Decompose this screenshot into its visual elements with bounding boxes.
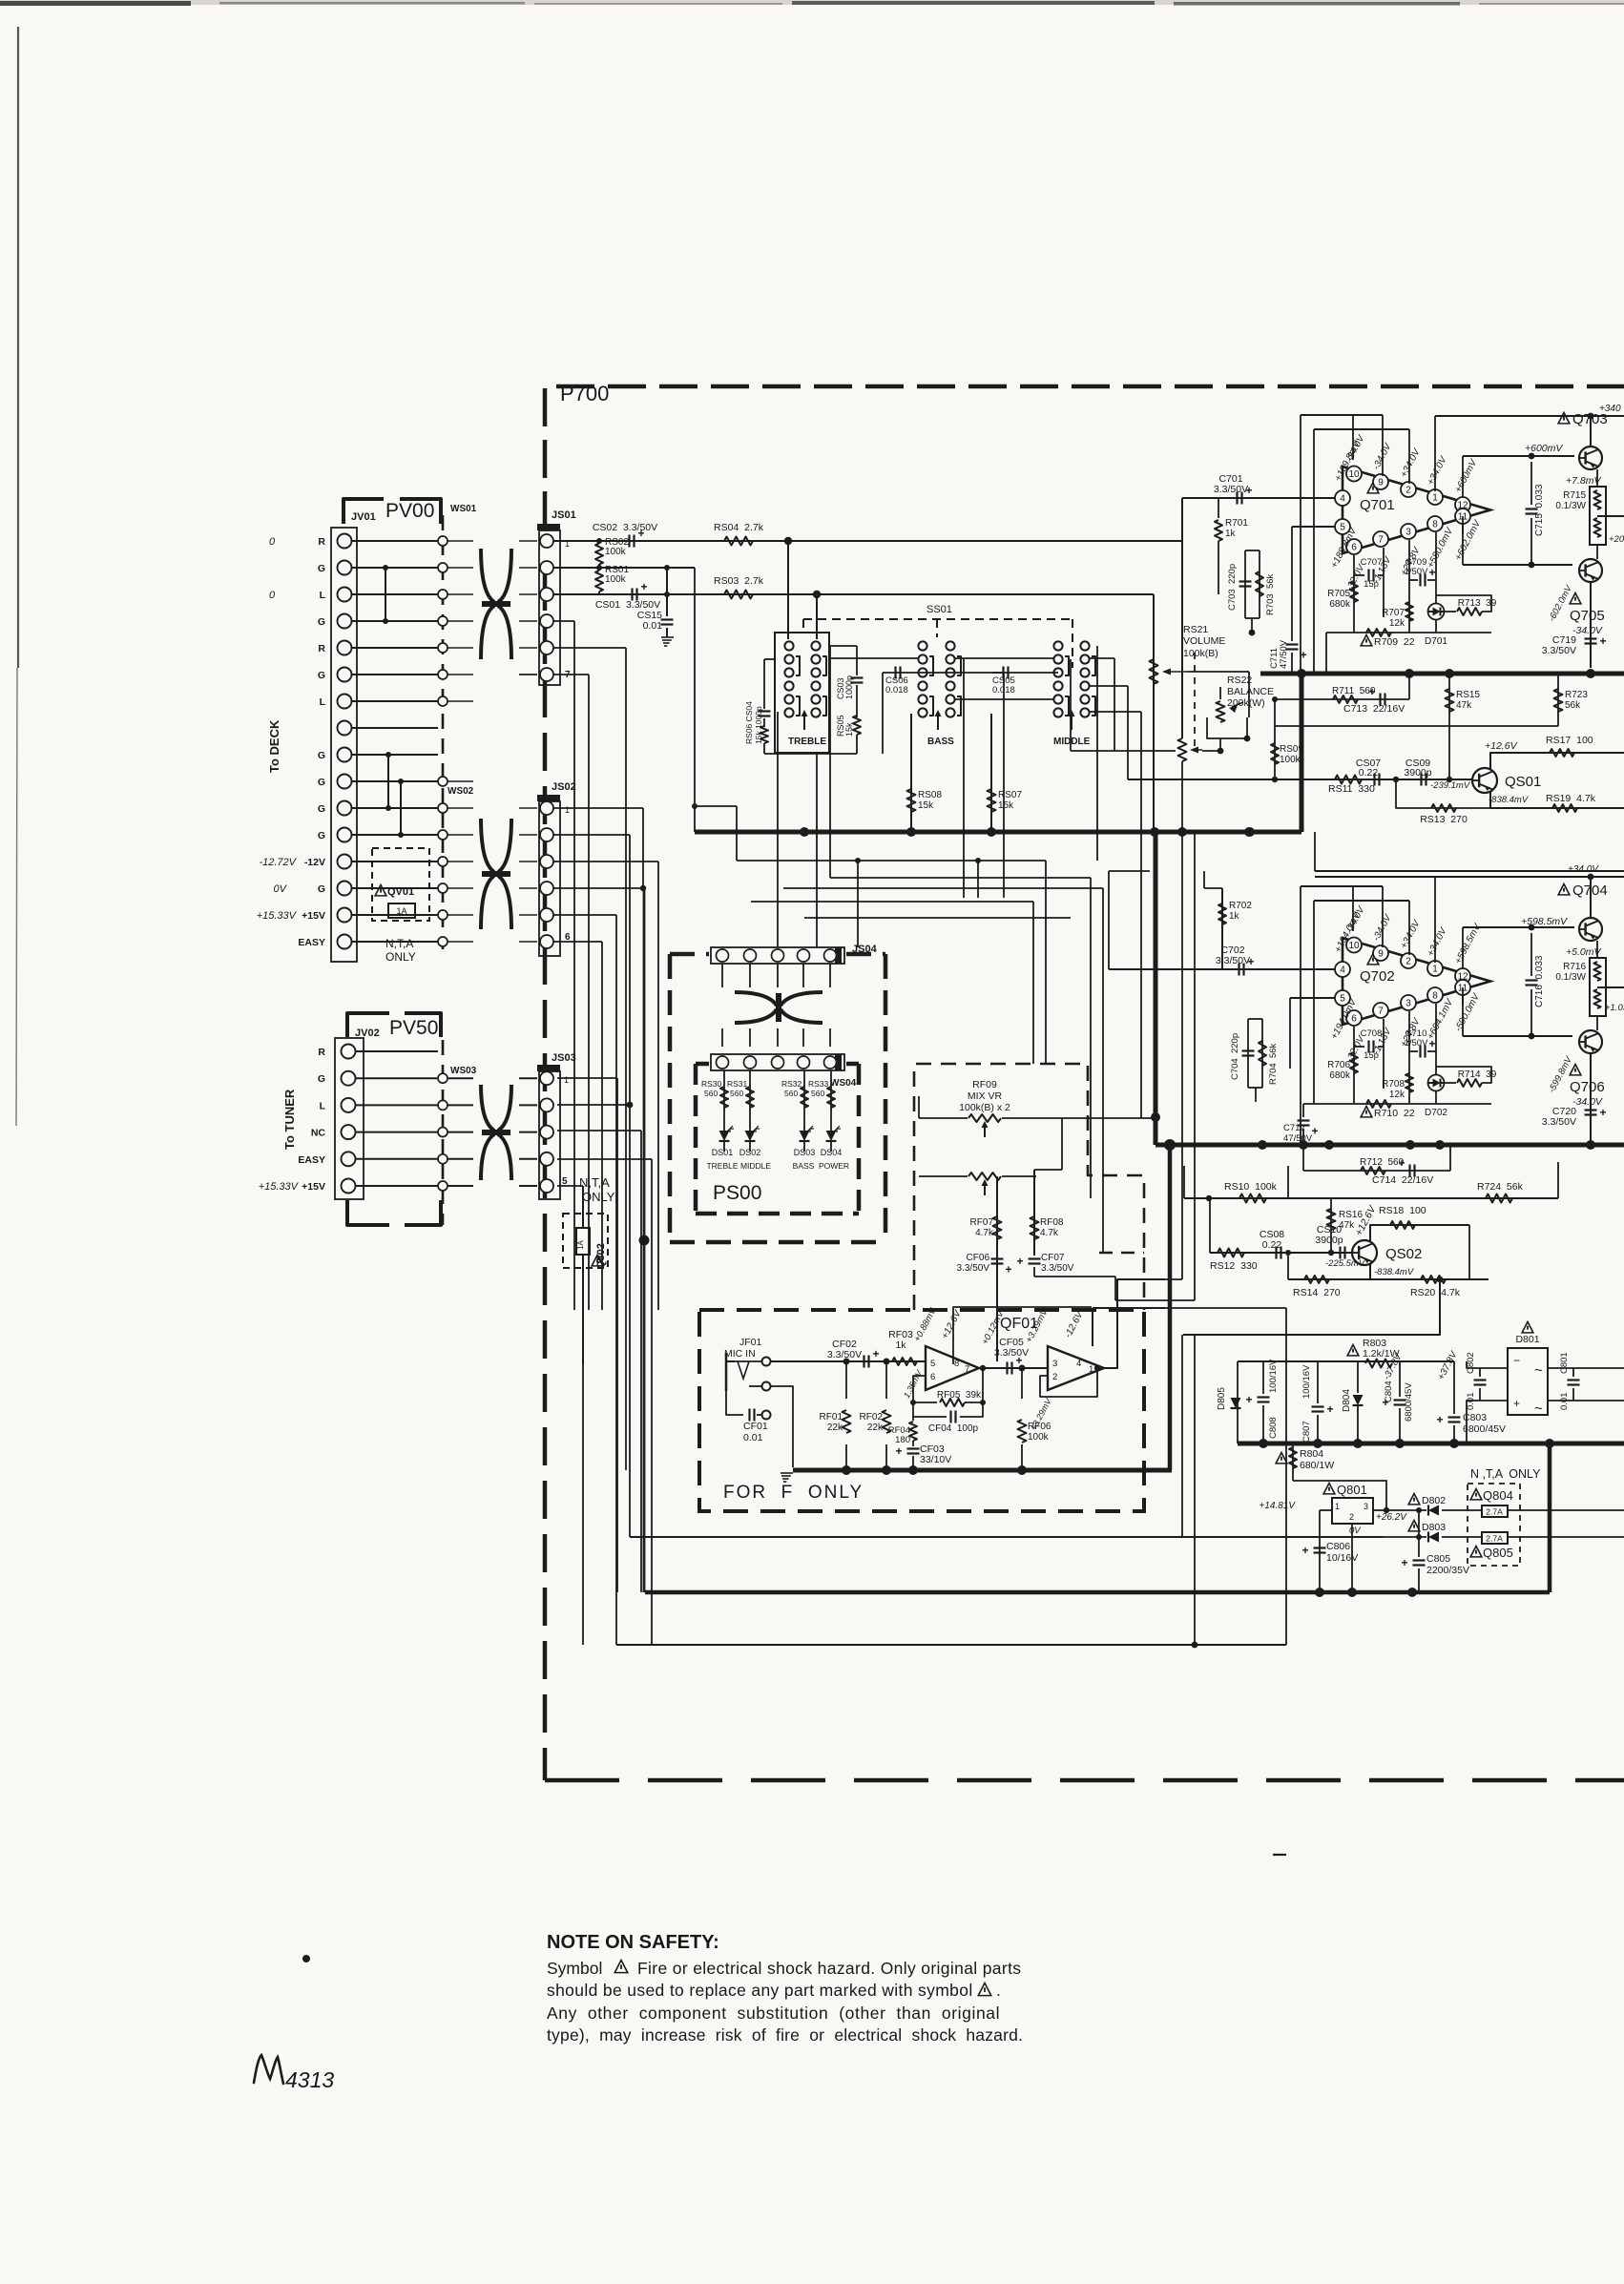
svg-text:-34.0V: -34.0V <box>1572 625 1603 636</box>
svg-text:RS11 330: RS11 330 <box>1328 783 1375 795</box>
svg-text:R702: R702 <box>1229 901 1252 911</box>
potentiometer RS21 second gang <box>1071 738 1223 832</box>
switch area vertical wires <box>764 646 1141 1118</box>
svg-text:2: 2 <box>1349 1512 1354 1522</box>
negative supply bus <box>645 1443 1550 1597</box>
svg-text:RF09: RF09 <box>972 1079 997 1090</box>
connector JS01 <box>537 509 576 685</box>
wire JS01-1 / capacitor CS02 / resistor RS04 <box>553 522 1182 548</box>
svg-text:3.3/50V: 3.3/50V <box>1542 1116 1576 1128</box>
svg-text:8: 8 <box>1432 520 1438 530</box>
svg-text:1A: 1A <box>396 906 406 916</box>
svg-text:5: 5 <box>1340 994 1345 1005</box>
svg-text:type), may increase risk o: type), may increase risk of fire or elec… <box>547 2025 1023 2045</box>
svg-text:9: 9 <box>1378 949 1384 960</box>
switch bank BASS <box>918 641 961 747</box>
ground bus (switch area) <box>692 803 1301 837</box>
fuse QV01 <box>358 848 438 921</box>
svg-text:-838.4mV: -838.4mV <box>1489 795 1530 805</box>
cable WS02 to JS02 <box>448 781 537 942</box>
wire to D803 <box>630 1536 1383 1538</box>
svg-text:1: 1 <box>1432 965 1438 975</box>
svg-text:RS17 100: RS17 100 <box>1546 735 1593 746</box>
M4313 page number <box>254 2055 334 2092</box>
capacitor CF02 / resistors RF03 RF01 RF02 <box>770 1329 926 1470</box>
svg-text:QF01: QF01 <box>1000 1316 1038 1332</box>
svg-text:+: + <box>1017 1255 1024 1268</box>
QF01 block outline <box>953 1307 1092 1364</box>
svg-text:+37.8V: +37.8V <box>1436 1349 1460 1382</box>
svg-text:+12.6V: +12.6V <box>940 1308 964 1341</box>
svg-text:WS01: WS01 <box>450 504 477 514</box>
svg-text:1k: 1k <box>895 1339 906 1351</box>
Q702 feedback parts R706 C708 R708 D702 C710 R714 <box>1327 987 1497 1118</box>
svg-text:RS10 100k: RS10 100k <box>1224 1181 1278 1193</box>
svg-text:RS12 330: RS12 330 <box>1210 1260 1258 1272</box>
svg-text:R705: R705 <box>1327 589 1350 599</box>
svg-text:Q805: Q805 <box>1483 1546 1513 1560</box>
svg-text:+: + <box>1429 1037 1436 1050</box>
svg-text:+600mV: +600mV <box>1525 443 1563 454</box>
resistor R711 / capacitor C713 <box>1272 674 1409 726</box>
svg-text:PS00: PS00 <box>713 1182 761 1204</box>
svg-text:33/10V: 33/10V <box>920 1454 951 1465</box>
svg-text:12k: 12k <box>1389 1090 1405 1100</box>
svg-text:47k: 47k <box>1339 1220 1355 1231</box>
To DECK label <box>267 719 281 773</box>
svg-text:RS14 270: RS14 270 <box>1293 1287 1341 1298</box>
svg-text:RS32: RS32 <box>781 1079 802 1089</box>
svg-text:3: 3 <box>1052 1359 1057 1369</box>
svg-text:-34.0V: -34.0V <box>1572 1096 1603 1108</box>
long interconnect vertical wires <box>553 621 658 1645</box>
PS00 label <box>713 1182 761 1204</box>
regulator Q801 <box>1259 1483 1407 1592</box>
svg-text:15k: 15k <box>918 800 934 811</box>
svg-text:D804: D804 <box>1342 1389 1352 1412</box>
PS00 inner dashed box <box>696 1064 859 1214</box>
svg-text:15p: 15p <box>1364 1050 1379 1061</box>
svg-text:−: − <box>1513 1354 1520 1367</box>
svg-text:+: + <box>1429 566 1436 579</box>
potentiometer RS22 BALANCE <box>1207 675 1274 741</box>
resistor R804 <box>1276 1443 1386 1510</box>
capacitor CS06 <box>883 667 1004 696</box>
svg-text:C807: C807 <box>1301 1421 1312 1443</box>
svg-text:RS07: RS07 <box>998 790 1022 800</box>
svg-text:100/16V: 100/16V <box>1301 1364 1312 1399</box>
svg-text:7: 7 <box>1378 535 1384 546</box>
svg-text:+: + <box>1513 1397 1520 1410</box>
page top edge scan smudge <box>0 0 1624 6</box>
svg-text:Q802: Q802 <box>595 1243 607 1269</box>
svg-text:+: + <box>1006 1263 1012 1277</box>
capacitor C804 <box>1383 1361 1415 1443</box>
svg-text:1/50V: 1/50V <box>1405 567 1428 577</box>
svg-text:100k: 100k <box>1280 755 1301 765</box>
resistor RS17 <box>1485 735 1624 769</box>
capacitor CS03 / resistor RS05 <box>829 646 864 754</box>
svg-text:+12.6V: +12.6V <box>1485 740 1518 752</box>
svg-text:560: 560 <box>730 1089 743 1098</box>
diode D802 <box>1384 1481 1482 1516</box>
svg-text:D702: D702 <box>1425 1108 1447 1118</box>
capacitor C704 / resistor R704 <box>1230 969 1279 1102</box>
svg-text:680/1W: 680/1W <box>1300 1460 1334 1471</box>
svg-text:10/16V: 10/16V <box>1326 1552 1358 1564</box>
svg-text:P700: P700 <box>560 382 609 405</box>
svg-text:C804: C804 <box>1384 1381 1394 1402</box>
svg-text:+: + <box>1246 1393 1253 1406</box>
svg-text:RS19 4.7k: RS19 4.7k <box>1546 793 1596 804</box>
svg-text:RS09: RS09 <box>1280 744 1303 755</box>
svg-text:3.3/50V: 3.3/50V <box>994 1347 1029 1359</box>
svg-text:+20m: +20m <box>1609 534 1624 545</box>
svg-text:R: R <box>318 536 325 548</box>
svg-text:12k: 12k <box>1389 618 1405 629</box>
svg-text:+: + <box>896 1444 903 1458</box>
capacitor C702 / resistor R702 <box>1109 871 1335 976</box>
svg-text:G: G <box>318 830 325 841</box>
svg-text:R706: R706 <box>1327 1060 1350 1070</box>
resistors RS02 RS01 <box>553 537 695 832</box>
connector PV00 bracket and labels <box>344 499 441 524</box>
svg-text:QV01: QV01 <box>387 886 414 898</box>
svg-text:7: 7 <box>1378 1007 1384 1017</box>
svg-text:47/50V: 47/50V <box>1283 1133 1313 1144</box>
svg-text:3900p: 3900p <box>1404 767 1431 779</box>
tick <box>1046 1063 1075 1065</box>
svg-text:BALANCE: BALANCE <box>1227 686 1274 697</box>
svg-text:DS03: DS03 <box>794 1148 816 1157</box>
svg-text:+15V: +15V <box>302 1181 325 1193</box>
svg-text:C808: C808 <box>1268 1417 1279 1439</box>
resistor RF08 / capacitor CF07 <box>1017 1170 1166 1300</box>
svg-text:10: 10 <box>1348 941 1360 951</box>
resistor R710 / capacitor C712 <box>1283 1100 1491 1145</box>
capacitor C805 <box>1402 1537 1469 1592</box>
PS00 outer dashed box <box>670 954 885 1242</box>
Q701 feedback parts R705 C707 R707 D701 C709 R713 <box>1327 516 1497 647</box>
op-amp U-Q702 <box>1329 904 1490 1065</box>
svg-text:MIDDLE: MIDDLE <box>1053 737 1091 747</box>
transistor QS02 / RS12 CS08 CS10 RS16 <box>1210 1198 1422 1272</box>
svg-text:To DECK: To DECK <box>267 719 281 773</box>
svg-text:47/50V: 47/50V <box>1279 639 1289 669</box>
svg-text:JF01: JF01 <box>739 1337 762 1348</box>
svg-text:3: 3 <box>1405 528 1411 538</box>
svg-text:C712: C712 <box>1283 1123 1305 1133</box>
power ground bus <box>1238 1439 1624 1448</box>
svg-text:+15V: +15V <box>302 910 325 922</box>
capacitor C703 / resistor R703 <box>1218 550 1276 635</box>
svg-text:RS04 2.7k: RS04 2.7k <box>714 522 764 533</box>
svg-text:TREBLE: TREBLE <box>788 737 826 747</box>
svg-text:6800/45V: 6800/45V <box>1404 1382 1414 1422</box>
easy line down <box>583 1364 616 1645</box>
JV02 row labels <box>259 1047 326 1193</box>
svg-text:Q706: Q706 <box>1570 1079 1605 1095</box>
svg-text:RF02: RF02 <box>860 1412 884 1422</box>
svg-text:4.7k: 4.7k <box>1040 1228 1059 1238</box>
svg-text:680k: 680k <box>1329 599 1351 610</box>
stray dot <box>302 1955 310 1962</box>
diode D803 <box>1383 1507 1482 1543</box>
svg-text:C801: C801 <box>1559 1352 1570 1374</box>
potentiometer RS21 VOLUME <box>1150 498 1250 832</box>
resistor RS15 <box>1446 674 1481 754</box>
svg-text:3.3/50V: 3.3/50V <box>1041 1263 1074 1274</box>
svg-text:RF07: RF07 <box>970 1217 994 1228</box>
bottom return wire <box>616 833 1286 1648</box>
svg-text:1: 1 <box>1089 1364 1093 1375</box>
wires JV01 to WS01/WS02 <box>352 541 439 942</box>
svg-text:L: L <box>320 590 326 601</box>
transistor Q703 <box>1525 411 1608 487</box>
svg-text:R716: R716 <box>1563 962 1586 972</box>
resistor RS07 <box>988 714 1023 832</box>
svg-text:100k: 100k <box>605 547 627 557</box>
svg-text:To TUNER: To TUNER <box>282 1089 297 1150</box>
svg-text:VOLUME: VOLUME <box>1183 635 1225 647</box>
switch bank MIDDLE <box>1053 641 1095 747</box>
svg-text:+: + <box>1302 1544 1309 1557</box>
op-amp U-Q701 <box>1329 433 1490 593</box>
resistor RS09 <box>1271 726 1303 782</box>
svg-text:R707: R707 <box>1382 608 1405 618</box>
svg-text:3.3/50V: 3.3/50V <box>1214 484 1248 495</box>
svg-text:Q705: Q705 <box>1570 608 1605 624</box>
capacitor CS15 and ground <box>637 568 674 646</box>
connector JS02 <box>537 781 576 956</box>
svg-text:CS02 3.3/50V: CS02 3.3/50V <box>593 522 657 533</box>
transistor Q706 <box>1547 1030 1605 1145</box>
svg-text:NOTE ON SAFETY:: NOTE ON SAFETY: <box>547 1932 719 1953</box>
svg-text:100k(B) x 2: 100k(B) x 2 <box>959 1102 1010 1113</box>
svg-text:WS02: WS02 <box>448 786 474 797</box>
To TUNER label <box>282 1089 297 1150</box>
svg-text:1/50V: 1/50V <box>1405 1038 1428 1049</box>
JV01 row labels <box>257 536 326 948</box>
svg-text:0.01: 0.01 <box>1559 1393 1570 1411</box>
resistor R716 <box>1555 941 1624 1030</box>
capacitor C719 <box>1542 634 1607 656</box>
svg-text:0.01: 0.01 <box>643 620 663 632</box>
svg-text:~: ~ <box>1534 1362 1543 1379</box>
svg-text:R711 560: R711 560 <box>1332 686 1376 696</box>
svg-text:Any other component substit: Any other component substitution (other … <box>547 2004 1000 2023</box>
svg-text:ONLY: ONLY <box>582 1190 615 1204</box>
FOR F ONLY dashed box <box>699 1310 1144 1511</box>
svg-text:R724 56k: R724 56k <box>1477 1181 1524 1193</box>
diode D804 <box>1342 1361 1364 1443</box>
svg-text:QS02: QS02 <box>1385 1246 1422 1262</box>
svg-text:+: + <box>1327 1402 1334 1416</box>
svg-text:0V: 0V <box>274 883 288 895</box>
svg-text:~: ~ <box>1534 1401 1543 1417</box>
resistors RF05 RF04 / capacitors CF04 CF03 <box>888 1365 986 1470</box>
svg-text:6: 6 <box>930 1372 935 1382</box>
svg-text:EASY: EASY <box>298 1154 325 1166</box>
svg-text:+604.1mV: +604.1mV <box>1426 997 1456 1042</box>
svg-text:100/16V: 100/16V <box>1268 1359 1279 1393</box>
svg-text:5: 5 <box>930 1359 935 1369</box>
svg-text:Q701: Q701 <box>1360 497 1395 513</box>
svg-text:3.3/50V: 3.3/50V <box>1216 955 1250 966</box>
svg-text:2.7A: 2.7A <box>1486 1534 1503 1544</box>
svg-text:2: 2 <box>1405 486 1411 496</box>
op-amp QF01b <box>1000 1279 1165 1397</box>
svg-text:RS30: RS30 <box>701 1079 722 1089</box>
svg-text:G: G <box>318 670 325 681</box>
svg-text:0: 0 <box>269 590 276 601</box>
svg-text:SS01: SS01 <box>927 604 952 615</box>
svg-text:WS03: WS03 <box>450 1066 477 1076</box>
svg-text:R: R <box>318 643 325 654</box>
connector PV50 bracket and labels <box>347 1013 441 1225</box>
svg-text:L: L <box>320 1100 326 1111</box>
svg-text:R723: R723 <box>1565 690 1588 700</box>
svg-text:4: 4 <box>1340 494 1345 505</box>
svg-text:D701: D701 <box>1425 636 1447 647</box>
svg-text:C714 22/16V: C714 22/16V <box>1372 1174 1433 1186</box>
svg-text:4.7k: 4.7k <box>975 1228 994 1238</box>
aux <box>583 1364 699 1470</box>
svg-text:560: 560 <box>784 1089 798 1098</box>
svg-text:C715 0.033: C715 0.033 <box>1534 484 1545 536</box>
volume gang dashed link <box>1194 653 1196 750</box>
svg-text:RS33: RS33 <box>808 1079 829 1089</box>
transistor QS01 / RS11 CS07 CS09 <box>1128 686 1541 795</box>
svg-text:CF01: CF01 <box>743 1421 768 1432</box>
svg-text:RS06 CS04: RS06 CS04 <box>744 701 754 744</box>
svg-text:22k: 22k <box>827 1422 843 1433</box>
svg-text:0.1/3W: 0.1/3W <box>1555 501 1586 511</box>
svg-text:+26.2V: +26.2V <box>1376 1512 1407 1523</box>
svg-text:RS08: RS08 <box>918 790 942 800</box>
capacitor CS04 / resistor RS06 <box>744 659 775 754</box>
voltage labels 37.8V <box>1382 1349 1460 1382</box>
svg-text:+12.6V: +12.6V <box>1353 1203 1379 1237</box>
svg-text:+34.0V: +34.0V <box>1426 925 1449 959</box>
svg-text:should be used to replace any: should be used to replace any part marke… <box>547 1981 973 2000</box>
svg-text:C707: C707 <box>1361 557 1383 568</box>
svg-text:1k: 1k <box>1225 529 1237 539</box>
svg-text:22k: 22k <box>867 1422 884 1433</box>
svg-text:1k: 1k <box>1229 911 1240 922</box>
capacitor C806 <box>1302 1510 1359 1592</box>
svg-text:R712 560: R712 560 <box>1360 1157 1405 1168</box>
stub <box>657 1530 659 1537</box>
svg-text:D803: D803 <box>1422 1522 1446 1533</box>
svg-text:10: 10 <box>1348 469 1360 480</box>
connector JS04 <box>711 944 878 964</box>
svg-text:MIDDLE: MIDDLE <box>740 1161 771 1171</box>
svg-text:DS01: DS01 <box>712 1148 734 1157</box>
bus junction <box>1245 827 1301 837</box>
svg-text:R715: R715 <box>1563 490 1586 501</box>
capacitor CS05 <box>992 667 1058 696</box>
bridge rectifier D801 <box>1480 1322 1624 1418</box>
capacitor CF05 / resistor RF06 <box>983 1306 1053 1470</box>
svg-text:0.018: 0.018 <box>885 685 908 696</box>
cable WS03 to JS03 <box>356 1051 538 1186</box>
svg-text:+: + <box>1437 1413 1444 1426</box>
svg-text:RS20 4.7k: RS20 4.7k <box>1410 1287 1461 1298</box>
svg-text:0: 0 <box>269 536 276 548</box>
svg-text:0.22: 0.22 <box>1359 767 1379 779</box>
svg-text:3900p: 3900p <box>1315 1235 1343 1246</box>
svg-text:0.1/3W: 0.1/3W <box>1555 972 1586 983</box>
resistor RS18 <box>1353 1203 1469 1279</box>
connector JV01 <box>331 528 357 962</box>
svg-text:3.3/50V: 3.3/50V <box>1542 645 1576 656</box>
svg-text:R704 56k: R704 56k <box>1268 1043 1279 1085</box>
svg-text:15k: 15k <box>998 800 1014 811</box>
svg-text:8: 8 <box>1432 991 1438 1002</box>
svg-text:C716 0.033: C716 0.033 <box>1534 955 1545 1007</box>
svg-text:+7.8mV: +7.8mV <box>1566 475 1601 487</box>
svg-text:+15.33V: +15.33V <box>257 910 298 922</box>
wire-strap WS03 <box>438 1040 477 1225</box>
diode D805 <box>1217 1361 1241 1443</box>
svg-text:+602.0mV: +602.0mV <box>1453 518 1484 563</box>
svg-text:4: 4 <box>1076 1359 1081 1369</box>
svg-text:NC: NC <box>311 1128 326 1139</box>
svg-text:9: 9 <box>1378 478 1384 488</box>
wire-strap WS01/WS02 <box>438 504 477 949</box>
resistor R712 / capacitor C714 <box>1303 1145 1450 1186</box>
svg-text:G: G <box>318 563 325 574</box>
svg-text:D805: D805 <box>1217 1387 1227 1410</box>
svg-text:G: G <box>318 883 325 895</box>
svg-text:EASY: EASY <box>298 937 325 948</box>
mic jack JF01 / capacitor CF01 <box>724 1337 793 1467</box>
svg-text:+: + <box>1600 1106 1607 1119</box>
capacitor C803 <box>1437 1361 1506 1443</box>
svg-text:N ,T,A ONLY: N ,T,A ONLY <box>1470 1467 1541 1481</box>
capacitor C808 <box>1246 1359 1280 1443</box>
svg-text:PV50: PV50 <box>389 1017 438 1039</box>
switch SS01 dashed outline <box>803 604 1072 668</box>
resistor R803 and rail <box>1238 1338 1454 1368</box>
svg-text:RS15: RS15 <box>1456 690 1480 700</box>
svg-text:R710 22: R710 22 <box>1374 1108 1415 1119</box>
cable WS01 to JS01 <box>448 541 537 701</box>
svg-text:JV01: JV01 <box>351 511 376 523</box>
svg-text:56k: 56k <box>1565 700 1581 711</box>
svg-text:RF08: RF08 <box>1040 1217 1064 1228</box>
svg-text:D801: D801 <box>1515 1334 1539 1345</box>
svg-text:L: L <box>320 696 326 708</box>
power bus (Q701) <box>1260 669 1624 832</box>
svg-text:POWER: POWER <box>819 1161 849 1171</box>
page left edge line <box>16 27 18 1126</box>
capacitor C801 <box>1559 1352 1580 1410</box>
svg-text:R703 56k: R703 56k <box>1265 573 1276 615</box>
svg-text:R709 22: R709 22 <box>1374 636 1415 648</box>
svg-text:+: + <box>1312 1125 1319 1138</box>
capacitor C701 / resistor R701 (Q701 input) <box>1182 473 1335 594</box>
svg-text:+34.0V: +34.0V <box>1426 454 1449 488</box>
mix control RF09 dashed box <box>914 1064 1144 1310</box>
fuse Q802 <box>555 1186 608 1364</box>
resistors RS30-RS33 / diodes DS01-DS04 <box>701 1070 849 1171</box>
svg-text:560: 560 <box>811 1089 824 1098</box>
svg-text:QS01: QS01 <box>1505 774 1541 790</box>
connector JV02 <box>335 1038 364 1199</box>
wires to treble switch <box>788 541 817 639</box>
